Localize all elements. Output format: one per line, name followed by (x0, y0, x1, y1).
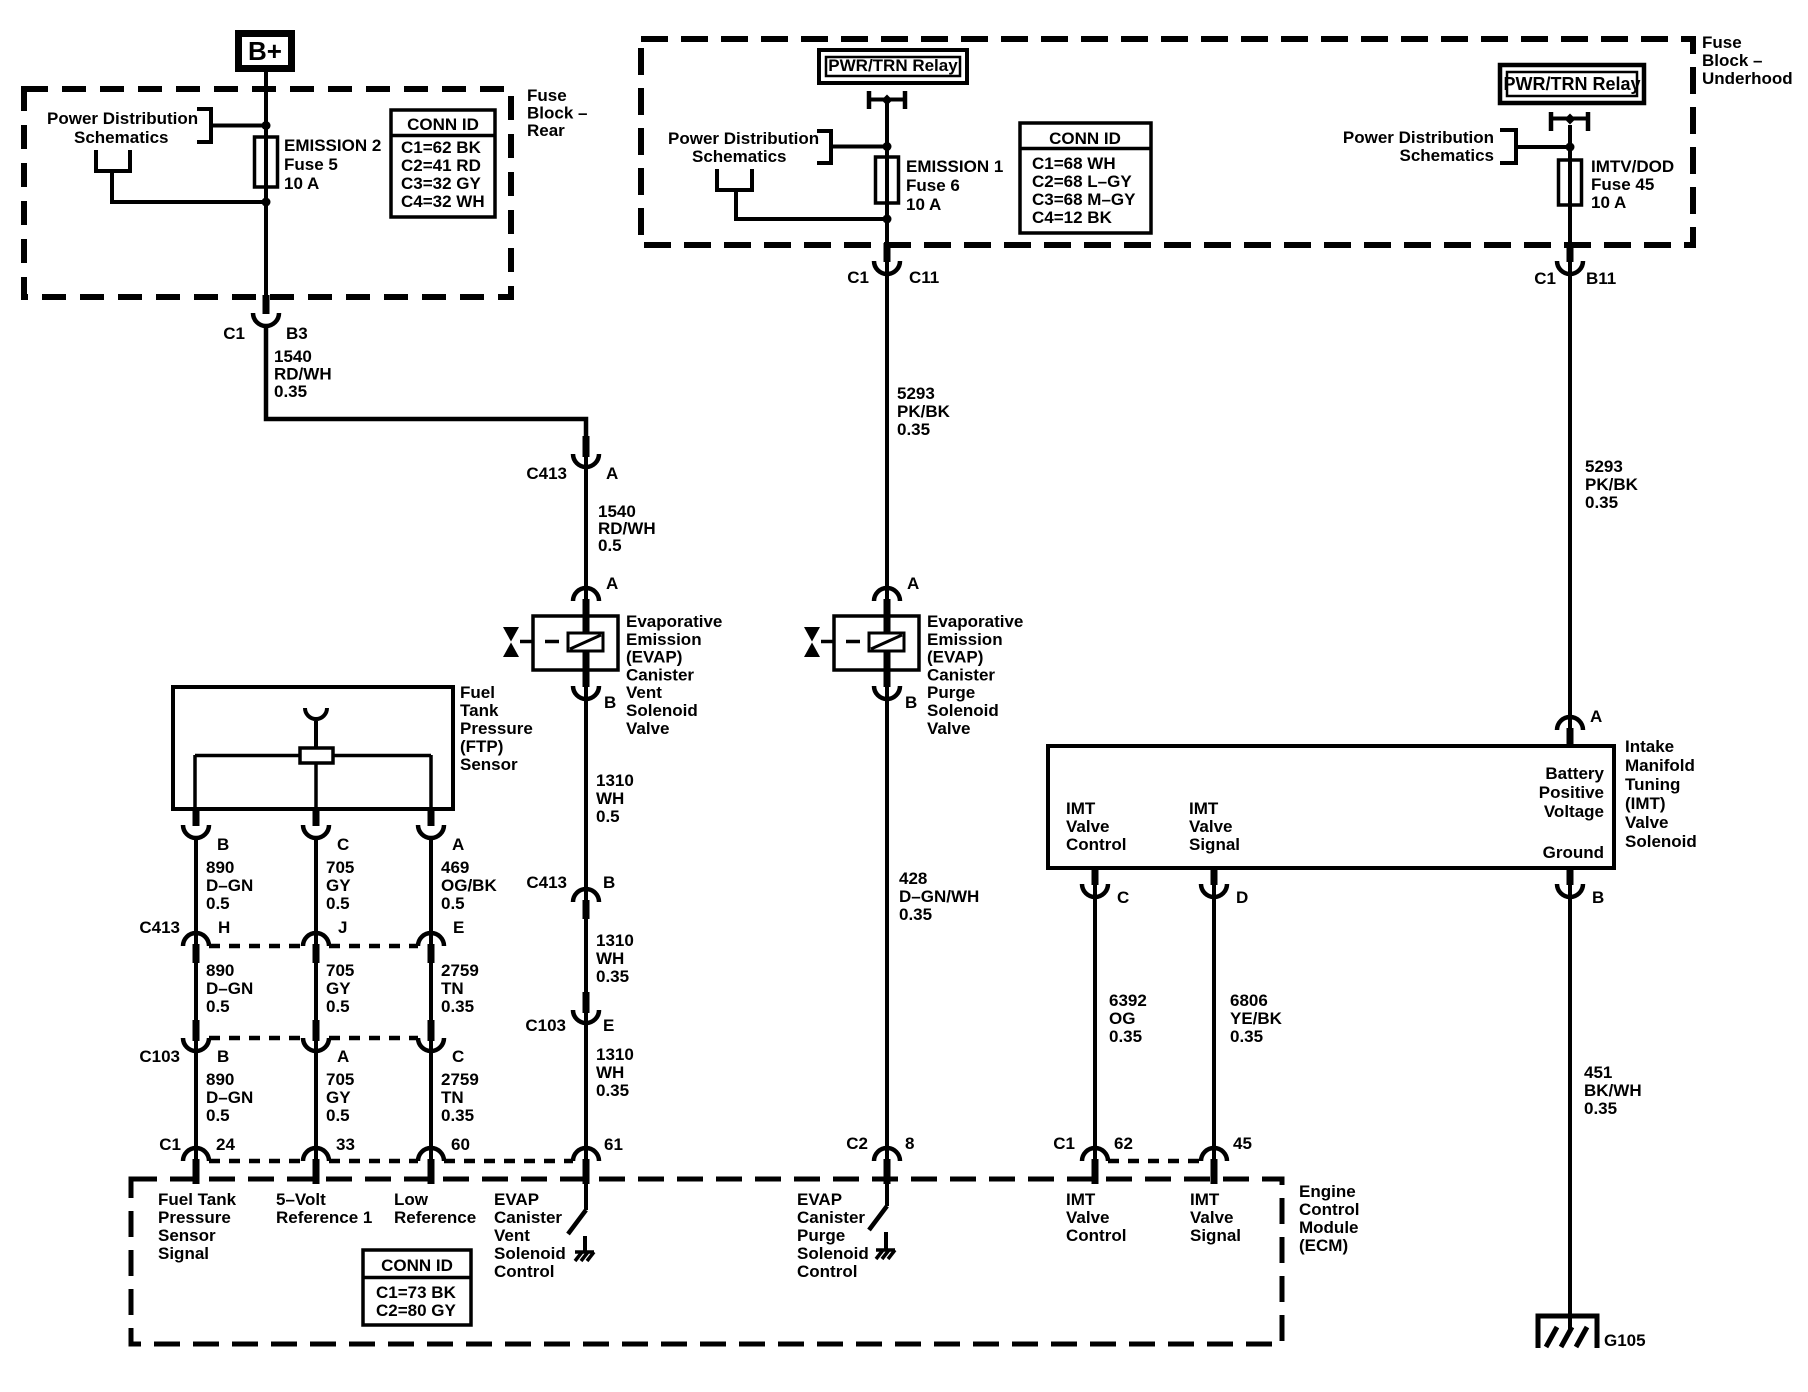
svg-text:0.35: 0.35 (899, 905, 932, 924)
svg-text:C103: C103 (139, 1047, 180, 1066)
svg-text:D–GN: D–GN (206, 979, 253, 998)
svg-text:428: 428 (899, 869, 927, 888)
svg-text:Solenoid: Solenoid (1625, 832, 1697, 851)
svg-text:Battery: Battery (1545, 764, 1604, 783)
svg-text:BK/WH: BK/WH (1584, 1081, 1642, 1100)
svg-text:PWR/TRN Relay: PWR/TRN Relay (828, 56, 958, 75)
svg-text:IMT: IMT (1066, 1190, 1096, 1209)
svg-text:(FTP): (FTP) (460, 737, 503, 756)
svg-text:Valve: Valve (1625, 813, 1669, 832)
svg-text:Fuse 5: Fuse 5 (284, 155, 338, 174)
svg-text:2759: 2759 (441, 961, 479, 980)
svg-text:C2=41 RD: C2=41 RD (401, 156, 481, 175)
svg-text:EMISSION 2: EMISSION 2 (284, 136, 381, 155)
svg-text:24: 24 (216, 1135, 235, 1154)
svg-text:Valve: Valve (1066, 1208, 1110, 1227)
svg-text:33: 33 (336, 1135, 355, 1154)
svg-text:Fuse: Fuse (1702, 33, 1742, 52)
svg-text:Emission: Emission (927, 630, 1003, 649)
svg-text:1310: 1310 (596, 931, 634, 950)
svg-text:B+: B+ (248, 36, 282, 66)
svg-text:G105: G105 (1604, 1331, 1646, 1350)
svg-text:0.35: 0.35 (1230, 1027, 1263, 1046)
svg-text:C4=32 WH: C4=32 WH (401, 192, 485, 211)
svg-text:A: A (1590, 707, 1602, 726)
svg-text:0.35: 0.35 (1585, 493, 1618, 512)
svg-text:GY: GY (326, 1088, 351, 1107)
svg-text:8: 8 (905, 1134, 914, 1153)
svg-text:Fuse 6: Fuse 6 (906, 176, 960, 195)
svg-text:C4=12 BK: C4=12 BK (1032, 208, 1113, 227)
svg-text:B: B (603, 873, 615, 892)
svg-text:Block –: Block – (1702, 51, 1762, 70)
svg-text:PK/BK: PK/BK (1585, 475, 1639, 494)
svg-text:0.35: 0.35 (897, 420, 930, 439)
svg-text:0.5: 0.5 (596, 807, 620, 826)
svg-text:Valve: Valve (927, 719, 971, 738)
svg-text:(IMT): (IMT) (1625, 794, 1666, 813)
svg-text:2759: 2759 (441, 1070, 479, 1089)
svg-text:EMISSION 1: EMISSION 1 (906, 157, 1003, 176)
svg-text:Signal: Signal (158, 1244, 209, 1263)
svg-text:Pressure: Pressure (460, 719, 533, 738)
svg-text:5–Volt: 5–Volt (276, 1190, 326, 1209)
svg-text:C2: C2 (846, 1134, 868, 1153)
svg-text:Canister: Canister (927, 665, 995, 684)
svg-text:Control: Control (1066, 1226, 1126, 1245)
svg-text:Manifold: Manifold (1625, 756, 1695, 775)
svg-text:0.35: 0.35 (274, 382, 307, 401)
svg-text:Engine: Engine (1299, 1182, 1356, 1201)
svg-text:62: 62 (1114, 1134, 1133, 1153)
svg-text:GY: GY (326, 979, 351, 998)
svg-text:Underhood: Underhood (1702, 69, 1793, 88)
svg-text:EVAP: EVAP (494, 1190, 539, 1209)
svg-text:Canister: Canister (797, 1208, 865, 1227)
svg-text:Power Distribution: Power Distribution (1343, 128, 1494, 147)
svg-text:A: A (606, 574, 618, 593)
svg-text:Fuel: Fuel (460, 683, 495, 702)
svg-text:Fuse: Fuse (527, 86, 567, 105)
svg-text:Fuel Tank: Fuel Tank (158, 1190, 237, 1209)
svg-text:Schematics: Schematics (692, 147, 787, 166)
svg-text:Solenoid: Solenoid (927, 701, 999, 720)
svg-text:C: C (452, 1047, 464, 1066)
svg-text:C413: C413 (526, 464, 567, 483)
svg-text:890: 890 (206, 858, 234, 877)
svg-text:WH: WH (596, 1063, 624, 1082)
svg-text:0.5: 0.5 (206, 894, 230, 913)
svg-text:45: 45 (1233, 1134, 1252, 1153)
svg-text:61: 61 (604, 1135, 623, 1154)
svg-text:Control: Control (1299, 1200, 1359, 1219)
svg-text:B3: B3 (286, 324, 308, 343)
svg-text:C2=68 L–GY: C2=68 L–GY (1032, 172, 1132, 191)
svg-text:0.35: 0.35 (441, 1106, 474, 1125)
svg-text:Valve: Valve (1066, 817, 1110, 836)
svg-text:0.5: 0.5 (326, 894, 350, 913)
svg-text:0.5: 0.5 (206, 1106, 230, 1125)
svg-text:CONN ID: CONN ID (381, 1256, 453, 1275)
svg-text:C413: C413 (526, 873, 567, 892)
svg-text:Reference: Reference (394, 1208, 476, 1227)
svg-text:10 A: 10 A (1591, 193, 1626, 212)
svg-text:EVAP: EVAP (797, 1190, 842, 1209)
svg-text:0.5: 0.5 (326, 1106, 350, 1125)
svg-text:C1: C1 (223, 324, 245, 343)
svg-text:OG: OG (1109, 1009, 1135, 1028)
svg-text:D–GN: D–GN (206, 1088, 253, 1107)
svg-text:60: 60 (451, 1135, 470, 1154)
svg-text:705: 705 (326, 961, 354, 980)
svg-text:Sensor: Sensor (460, 755, 518, 774)
svg-text:Canister: Canister (494, 1208, 562, 1227)
svg-text:TN: TN (441, 979, 464, 998)
svg-text:Valve: Valve (626, 719, 670, 738)
svg-text:(EVAP): (EVAP) (927, 648, 983, 667)
svg-text:Signal: Signal (1189, 835, 1240, 854)
svg-text:(ECM): (ECM) (1299, 1236, 1348, 1255)
svg-text:B: B (1592, 888, 1604, 907)
svg-text:B: B (905, 693, 917, 712)
svg-text:6392: 6392 (1109, 991, 1147, 1010)
svg-text:469: 469 (441, 858, 469, 877)
svg-text:C: C (337, 835, 349, 854)
svg-text:Rear: Rear (527, 121, 565, 140)
svg-text:0.35: 0.35 (441, 997, 474, 1016)
svg-text:IMT: IMT (1189, 799, 1219, 818)
svg-text:Purge: Purge (927, 683, 975, 702)
svg-text:Emission: Emission (626, 630, 702, 649)
svg-text:A: A (452, 835, 464, 854)
svg-text:E: E (453, 918, 464, 937)
svg-text:Valve: Valve (1190, 1208, 1234, 1227)
svg-text:IMT: IMT (1066, 799, 1096, 818)
svg-text:0.35: 0.35 (1584, 1099, 1617, 1118)
svg-text:C1=62 BK: C1=62 BK (401, 138, 482, 157)
svg-text:A: A (606, 464, 618, 483)
svg-text:B11: B11 (1586, 269, 1616, 288)
svg-text:Control: Control (494, 1262, 554, 1281)
svg-text:Pressure: Pressure (158, 1208, 231, 1227)
svg-text:Solenoid: Solenoid (626, 701, 698, 720)
svg-text:C3=68 M–GY: C3=68 M–GY (1032, 190, 1136, 209)
svg-text:J: J (338, 918, 347, 937)
svg-text:Solenoid: Solenoid (797, 1244, 869, 1263)
svg-text:Canister: Canister (626, 665, 694, 684)
svg-text:6806: 6806 (1230, 991, 1268, 1010)
svg-text:1310: 1310 (596, 1045, 634, 1064)
svg-text:C1=68 WH: C1=68 WH (1032, 154, 1116, 173)
svg-text:Power Distribution: Power Distribution (668, 129, 819, 148)
svg-text:0.5: 0.5 (598, 536, 622, 555)
svg-text:Ground: Ground (1543, 843, 1604, 862)
svg-text:0.35: 0.35 (1109, 1027, 1142, 1046)
svg-text:Low: Low (394, 1190, 429, 1209)
svg-text:Voltage: Voltage (1544, 802, 1604, 821)
svg-text:RD/WH: RD/WH (274, 365, 332, 384)
svg-text:TN: TN (441, 1088, 464, 1107)
svg-text:C1: C1 (159, 1135, 181, 1154)
svg-text:B: B (604, 693, 616, 712)
svg-text:Schematics: Schematics (1400, 146, 1495, 165)
svg-text:Intake: Intake (1625, 737, 1674, 756)
svg-text:B: B (217, 835, 229, 854)
svg-text:C3=32 GY: C3=32 GY (401, 174, 482, 193)
svg-text:C: C (1117, 888, 1129, 907)
svg-text:Power Distribution: Power Distribution (47, 109, 198, 128)
svg-text:Module: Module (1299, 1218, 1359, 1237)
svg-text:C2=80 GY: C2=80 GY (376, 1301, 457, 1320)
svg-text:451: 451 (1584, 1063, 1612, 1082)
svg-text:OG/BK: OG/BK (441, 876, 497, 895)
svg-text:A: A (337, 1047, 349, 1066)
svg-text:H: H (218, 918, 230, 937)
svg-text:D–GN: D–GN (206, 876, 253, 895)
svg-text:Vent: Vent (494, 1226, 530, 1245)
svg-text:0.35: 0.35 (596, 1081, 629, 1100)
svg-text:CONN ID: CONN ID (1049, 129, 1121, 148)
svg-text:890: 890 (206, 1070, 234, 1089)
svg-text:C103: C103 (525, 1016, 566, 1035)
svg-text:IMT: IMT (1190, 1190, 1220, 1209)
svg-text:E: E (603, 1016, 614, 1035)
svg-text:0.35: 0.35 (596, 967, 629, 986)
svg-text:0.5: 0.5 (326, 997, 350, 1016)
svg-text:Purge: Purge (797, 1226, 845, 1245)
svg-text:Reference 1: Reference 1 (276, 1208, 372, 1227)
svg-text:1540: 1540 (274, 347, 312, 366)
svg-text:PWR/TRN Relay: PWR/TRN Relay (1503, 74, 1640, 94)
svg-text:Evaporative: Evaporative (927, 612, 1023, 631)
svg-text:Control: Control (797, 1262, 857, 1281)
svg-text:WH: WH (596, 949, 624, 968)
svg-text:C413: C413 (139, 918, 180, 937)
svg-text:(EVAP): (EVAP) (626, 648, 682, 667)
svg-text:Solenoid: Solenoid (494, 1244, 566, 1263)
svg-text:C11: C11 (909, 268, 939, 287)
svg-text:C1: C1 (1053, 1134, 1075, 1153)
svg-text:D: D (1236, 888, 1248, 907)
svg-text:D–GN/WH: D–GN/WH (899, 887, 979, 906)
svg-text:Signal: Signal (1190, 1226, 1241, 1245)
svg-text:B: B (217, 1047, 229, 1066)
svg-text:890: 890 (206, 961, 234, 980)
svg-text:Schematics: Schematics (74, 128, 169, 147)
svg-text:5293: 5293 (897, 384, 935, 403)
svg-text:0.5: 0.5 (206, 997, 230, 1016)
svg-text:1310: 1310 (596, 771, 634, 790)
svg-text:10 A: 10 A (284, 174, 319, 193)
svg-text:C1: C1 (1534, 269, 1556, 288)
svg-text:Evaporative: Evaporative (626, 612, 722, 631)
svg-text:WH: WH (596, 789, 624, 808)
svg-text:PK/BK: PK/BK (897, 402, 951, 421)
svg-text:Block –: Block – (527, 104, 587, 123)
svg-text:705: 705 (326, 1070, 354, 1089)
svg-text:Valve: Valve (1189, 817, 1233, 836)
svg-text:0.5: 0.5 (441, 894, 465, 913)
svg-text:YE/BK: YE/BK (1230, 1009, 1283, 1028)
svg-text:Control: Control (1066, 835, 1126, 854)
svg-text:5293: 5293 (1585, 457, 1623, 476)
svg-text:GY: GY (326, 876, 351, 895)
svg-text:C1: C1 (847, 268, 869, 287)
svg-text:A: A (907, 574, 919, 593)
svg-text:Vent: Vent (626, 683, 662, 702)
svg-text:Fuse 45: Fuse 45 (1591, 175, 1654, 194)
svg-text:10 A: 10 A (906, 195, 941, 214)
svg-text:IMTV/DOD: IMTV/DOD (1591, 157, 1674, 176)
svg-text:705: 705 (326, 858, 354, 877)
svg-text:C1=73 BK: C1=73 BK (376, 1283, 457, 1302)
svg-text:Tank: Tank (460, 701, 499, 720)
svg-text:Positive: Positive (1539, 783, 1604, 802)
svg-text:Sensor: Sensor (158, 1226, 216, 1245)
svg-text:CONN ID: CONN ID (407, 115, 479, 134)
svg-text:Tuning: Tuning (1625, 775, 1680, 794)
